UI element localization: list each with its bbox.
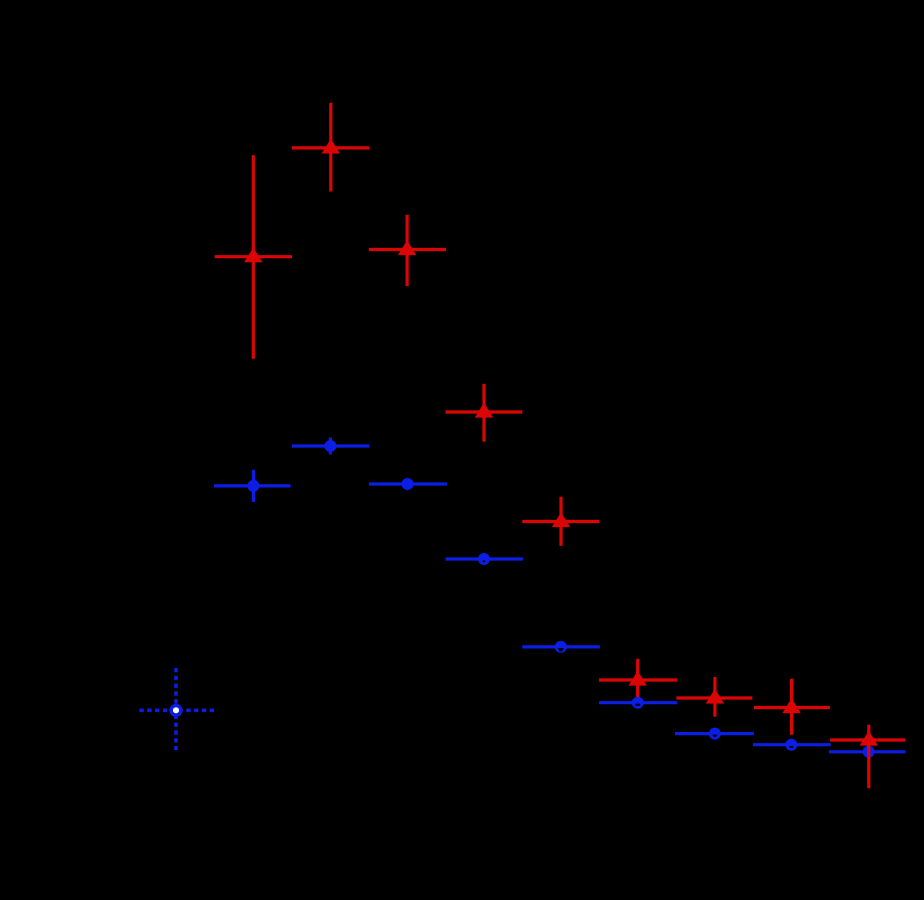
red series error bars and markers [215, 155, 292, 359]
dashed open-circle point [140, 668, 215, 752]
blue series error bars and markers [214, 470, 291, 502]
